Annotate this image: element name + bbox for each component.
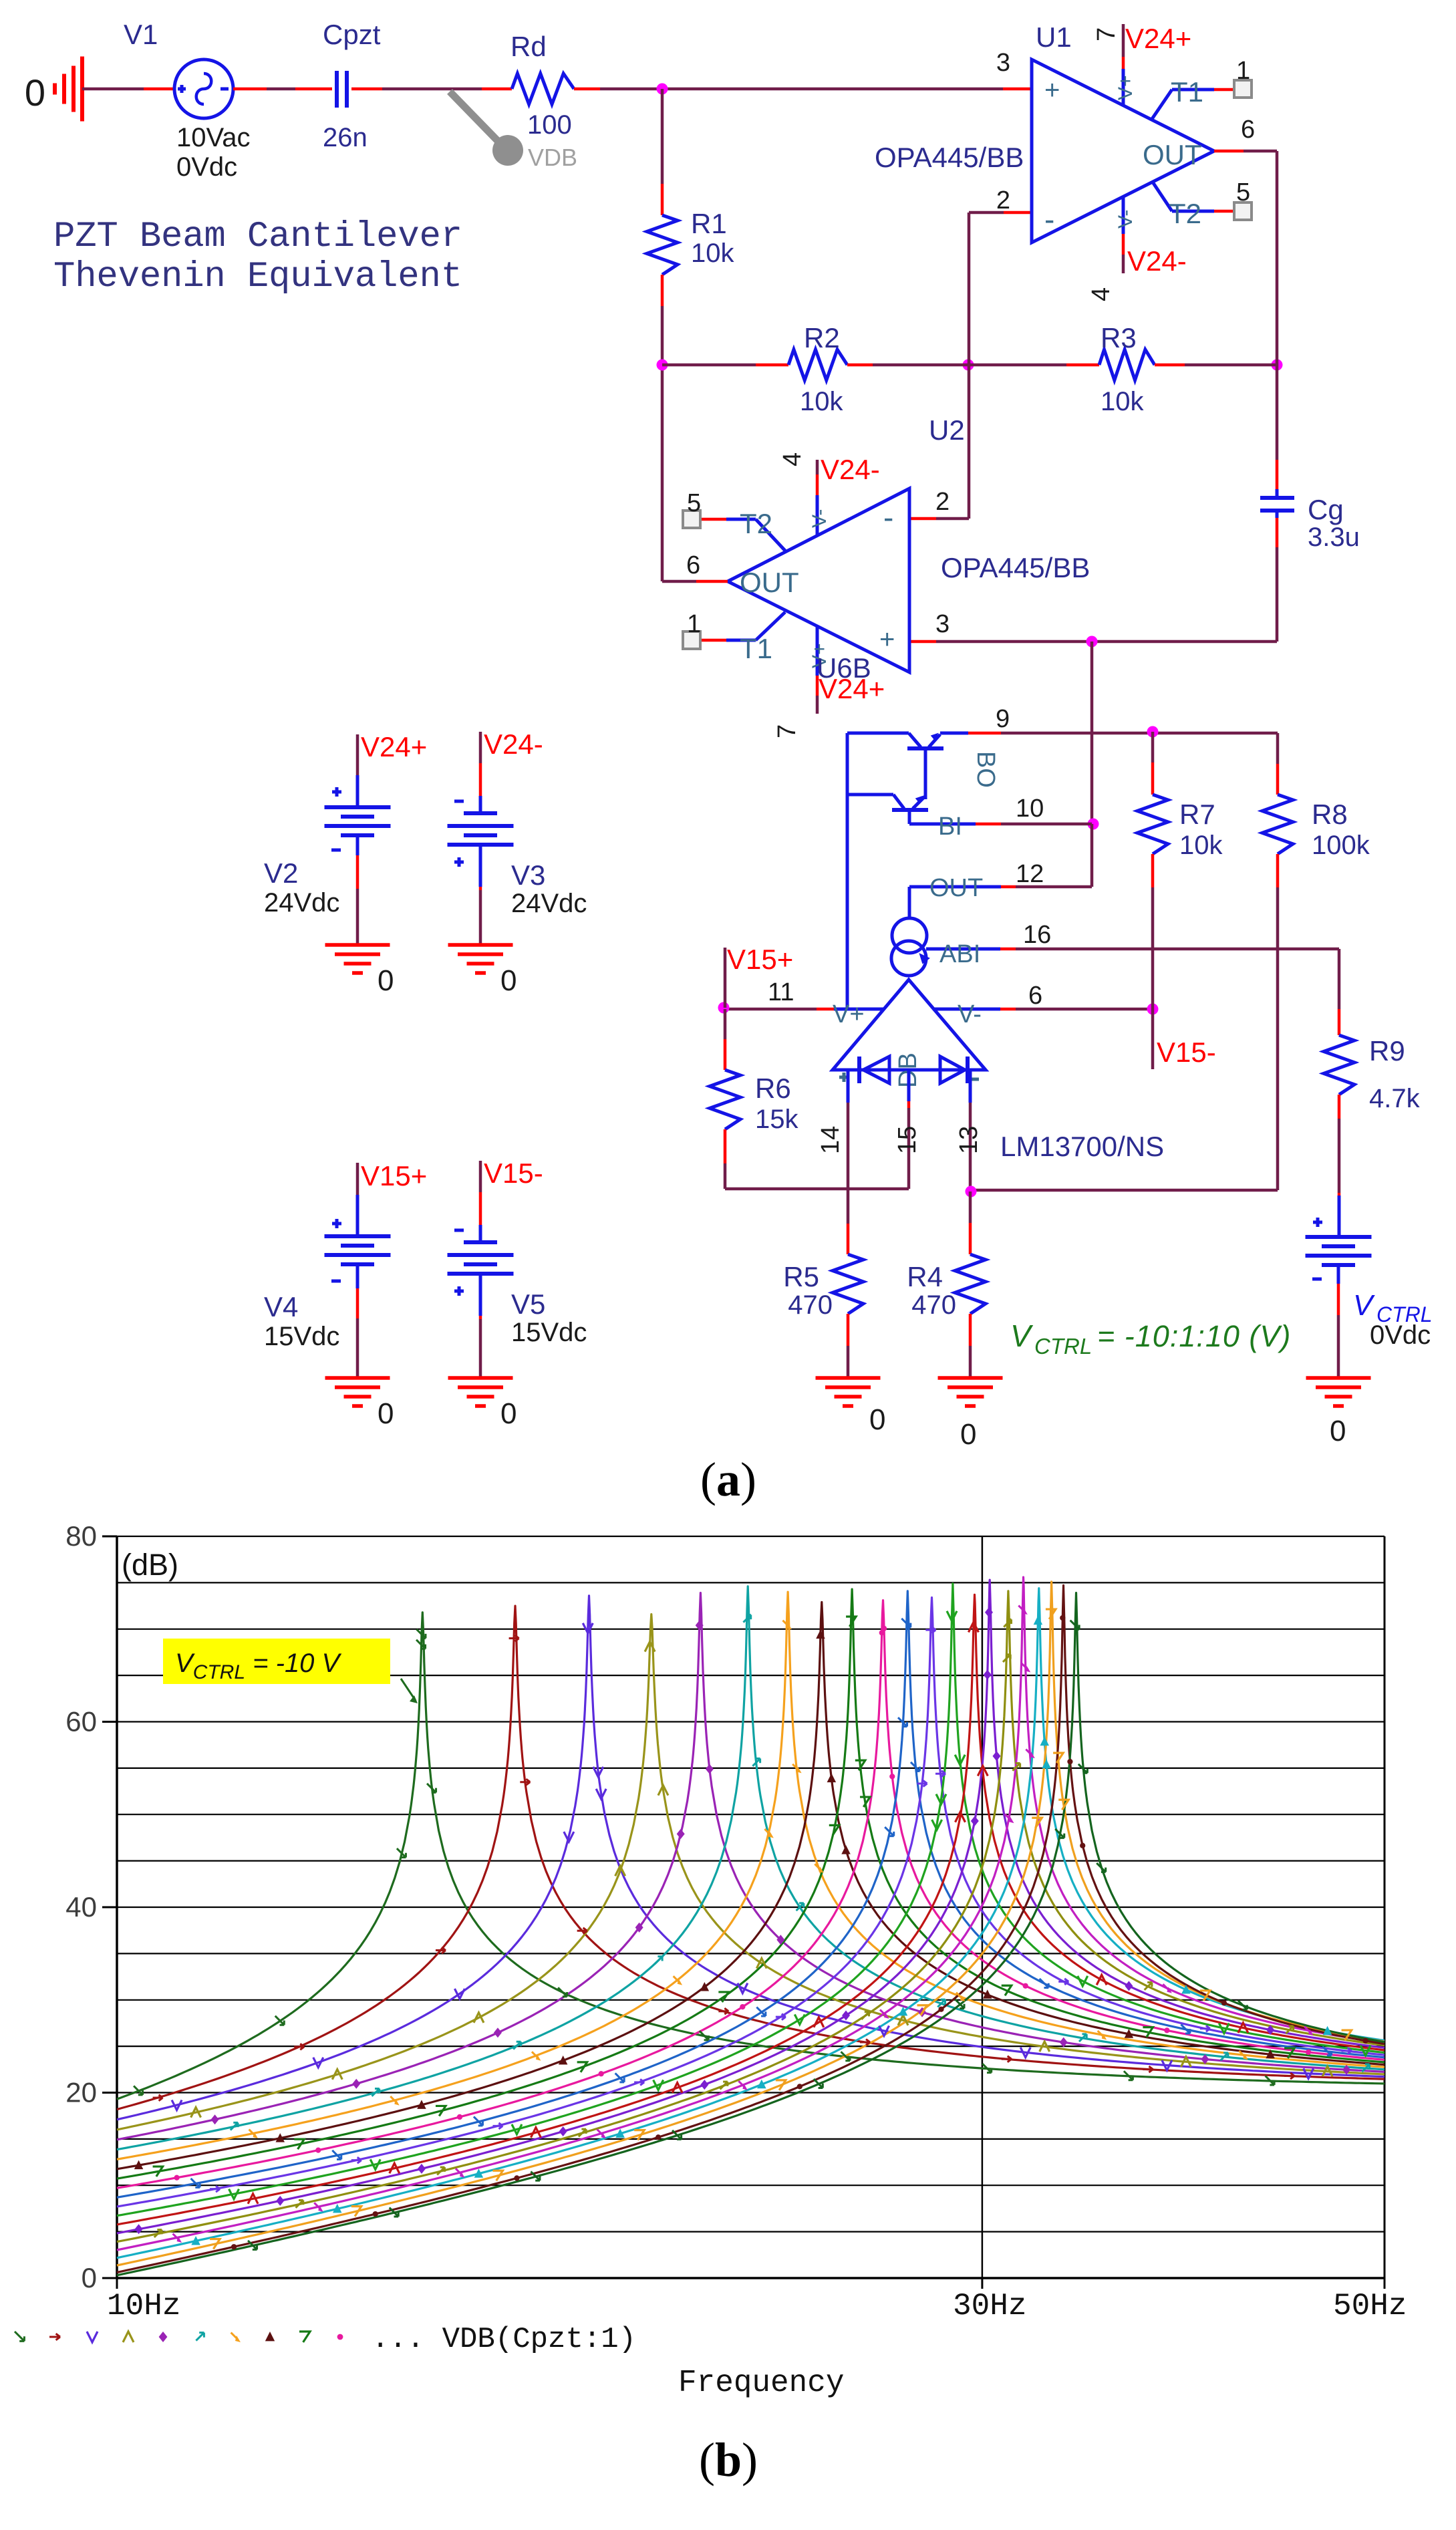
svg-text:R4: R4 <box>907 1261 943 1292</box>
svg-text:OPA445/BB: OPA445/BB <box>875 142 1024 173</box>
svg-text:(a): (a) <box>700 1453 756 1506</box>
svg-text:50Hz: 50Hz <box>1333 2289 1407 2324</box>
svg-text:V-: V- <box>1115 210 1137 229</box>
svg-text:11: 11 <box>768 978 794 1006</box>
svg-text:V-: V- <box>958 1000 982 1028</box>
svg-text:15: 15 <box>893 1126 921 1154</box>
svg-text:10k: 10k <box>1179 831 1223 860</box>
svg-text:24Vdc: 24Vdc <box>264 888 339 918</box>
svg-text:470: 470 <box>788 1290 833 1320</box>
svg-text:2: 2 <box>935 488 950 516</box>
svg-text:V3: V3 <box>511 859 545 891</box>
svg-text:OPA445/BB: OPA445/BB <box>941 552 1090 583</box>
svg-text:-: - <box>883 500 893 535</box>
svg-text:V15+: V15+ <box>361 1160 427 1191</box>
svg-text:R5: R5 <box>783 1261 819 1292</box>
svg-text:16: 16 <box>1023 921 1051 949</box>
svg-text:V15+: V15+ <box>727 944 793 975</box>
svg-text:BO: BO <box>972 751 1000 788</box>
svg-text:V: V <box>1010 1318 1034 1353</box>
svg-text:0: 0 <box>500 1397 517 1430</box>
svg-text:V24+: V24+ <box>819 673 885 704</box>
svg-text:3.3u: 3.3u <box>1308 523 1360 552</box>
svg-text:0Vdc: 0Vdc <box>176 152 237 182</box>
svg-text:30Hz: 30Hz <box>953 2289 1026 2324</box>
svg-text:V5: V5 <box>511 1288 545 1320</box>
svg-text:470: 470 <box>911 1290 956 1320</box>
svg-text:OUT: OUT <box>740 567 799 598</box>
svg-text:80: 80 <box>65 1520 97 1552</box>
svg-text:1: 1 <box>1236 57 1250 85</box>
svg-text:0: 0 <box>960 1418 976 1451</box>
svg-text:9: 9 <box>996 705 1010 733</box>
svg-text:0: 0 <box>25 72 45 114</box>
svg-text:V15-: V15- <box>1157 1036 1216 1068</box>
svg-text:V2: V2 <box>264 857 298 889</box>
svg-text:10Vac: 10Vac <box>176 123 250 152</box>
svg-text:3: 3 <box>996 49 1010 77</box>
svg-text:10k: 10k <box>1101 387 1144 416</box>
svg-text:10k: 10k <box>800 387 843 416</box>
svg-text:10: 10 <box>1016 795 1044 823</box>
svg-text:V-: V- <box>809 509 831 528</box>
svg-text:VDB: VDB <box>528 144 577 171</box>
svg-text:7: 7 <box>773 724 801 738</box>
svg-text:60: 60 <box>65 1706 97 1737</box>
svg-text:-: - <box>1044 202 1054 237</box>
svg-text:0Vdc: 0Vdc <box>1370 1320 1431 1350</box>
svg-text:6: 6 <box>1028 982 1042 1010</box>
svg-text:15Vdc: 15Vdc <box>511 1318 587 1347</box>
svg-text:R8: R8 <box>1312 799 1348 830</box>
svg-text:R7: R7 <box>1179 799 1215 830</box>
svg-text:7: 7 <box>1093 27 1121 41</box>
svg-text:U1: U1 <box>1036 21 1072 53</box>
svg-text:V24-: V24- <box>484 728 543 760</box>
svg-text:13: 13 <box>955 1126 983 1154</box>
svg-text:100k: 100k <box>1312 831 1370 860</box>
svg-text:T1: T1 <box>740 633 772 664</box>
svg-text:0: 0 <box>82 2262 97 2293</box>
svg-text:+: + <box>1044 76 1060 105</box>
svg-text:T2: T2 <box>740 508 772 539</box>
svg-text:T1: T1 <box>1171 76 1203 108</box>
svg-text:3: 3 <box>935 610 950 638</box>
svg-text:V24-: V24- <box>821 454 880 485</box>
svg-text:U2: U2 <box>929 414 965 446</box>
svg-text:R1: R1 <box>691 208 727 239</box>
svg-text:(b): (b) <box>699 2433 758 2487</box>
svg-text:V4: V4 <box>264 1291 298 1322</box>
svg-text:PZT Beam Cantilever: PZT Beam Cantilever <box>53 217 462 257</box>
svg-text:R3: R3 <box>1101 322 1137 354</box>
svg-text:10Hz: 10Hz <box>107 2289 180 2324</box>
svg-text:0: 0 <box>378 1397 394 1430</box>
svg-text:100: 100 <box>527 110 572 140</box>
svg-text:OUT: OUT <box>1143 139 1202 170</box>
svg-text:0: 0 <box>869 1403 885 1436</box>
svg-text:V15-: V15- <box>484 1157 543 1189</box>
svg-text:40: 40 <box>65 1891 97 1923</box>
svg-text:CTRL: CTRL <box>1034 1334 1092 1359</box>
svg-text:V+: V+ <box>1115 75 1137 100</box>
svg-text:BI: BI <box>938 813 962 841</box>
svg-text:15k: 15k <box>755 1105 798 1134</box>
svg-text:6: 6 <box>1241 116 1255 144</box>
svg-text:V+: V+ <box>833 1000 865 1028</box>
svg-text:Rd: Rd <box>511 31 547 62</box>
svg-text:ABI: ABI <box>939 940 980 968</box>
svg-text:V24+: V24+ <box>361 731 427 762</box>
svg-text:= -10:1:10 (V): = -10:1:10 (V) <box>1097 1319 1291 1353</box>
svg-text:1: 1 <box>687 610 701 638</box>
svg-text:24Vdc: 24Vdc <box>511 889 587 918</box>
svg-text:10k: 10k <box>691 239 734 268</box>
svg-text:(dB): (dB) <box>122 1548 178 1582</box>
svg-text:0: 0 <box>500 964 517 997</box>
svg-text:Frequency: Frequency <box>678 2366 844 2400</box>
svg-text:4: 4 <box>1087 287 1115 301</box>
svg-text:0: 0 <box>378 964 394 997</box>
svg-text:V24-: V24- <box>1127 245 1187 277</box>
svg-text:V: V <box>1353 1289 1375 1322</box>
svg-text:OUT: OUT <box>929 874 983 902</box>
svg-text:R2: R2 <box>804 322 840 354</box>
svg-text:Cpzt: Cpzt <box>323 19 381 50</box>
svg-text:6: 6 <box>686 551 700 579</box>
svg-text:R6: R6 <box>755 1073 791 1104</box>
svg-text:T2: T2 <box>1169 198 1201 229</box>
svg-text:5: 5 <box>1236 178 1250 206</box>
svg-text:4: 4 <box>778 452 807 466</box>
svg-text:0: 0 <box>1330 1415 1346 1447</box>
svg-text:Cg: Cg <box>1308 494 1344 525</box>
svg-text:V24+: V24+ <box>1125 23 1191 54</box>
svg-text:Thevenin Equivalent: Thevenin Equivalent <box>53 257 462 297</box>
svg-text:... VDB(Cpzt:1): ... VDB(Cpzt:1) <box>372 2323 636 2356</box>
svg-text:20: 20 <box>65 2077 97 2108</box>
svg-text:26n: 26n <box>323 123 368 152</box>
svg-text:12: 12 <box>1016 860 1044 888</box>
svg-text:2: 2 <box>996 186 1010 215</box>
svg-text:4.7k: 4.7k <box>1369 1084 1421 1113</box>
svg-text:15Vdc: 15Vdc <box>264 1322 339 1351</box>
svg-text:5: 5 <box>687 489 701 517</box>
svg-text:+: + <box>879 625 895 654</box>
svg-text:14: 14 <box>817 1126 845 1154</box>
svg-text:R9: R9 <box>1369 1035 1405 1067</box>
svg-text:V1: V1 <box>124 19 158 50</box>
svg-text:LM13700/NS: LM13700/NS <box>1000 1131 1164 1162</box>
